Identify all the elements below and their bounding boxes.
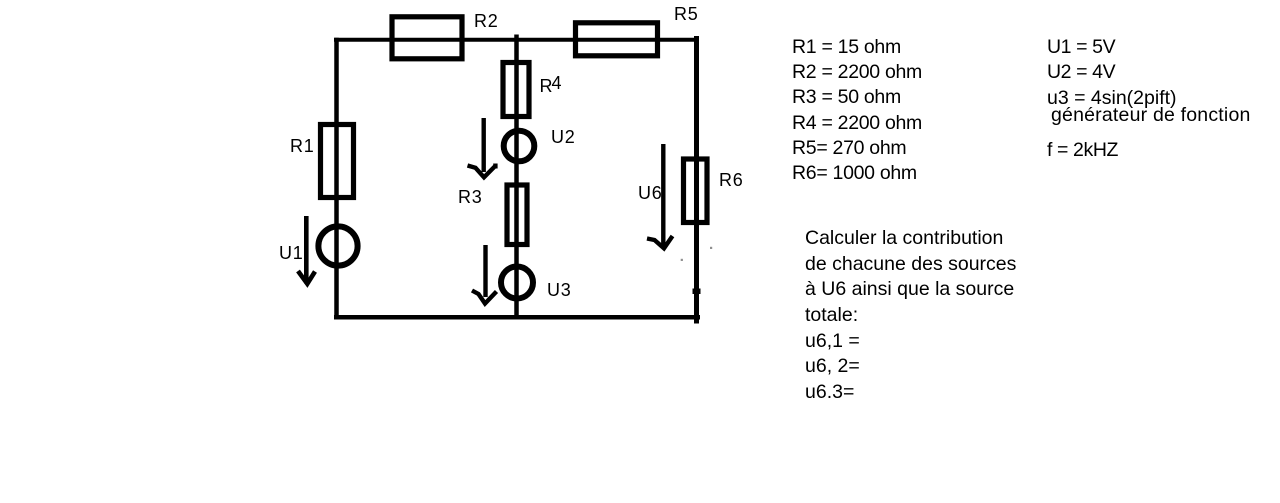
resistor R5	[576, 23, 658, 56]
wire left vertical	[334, 38, 339, 317]
value f	[1047, 141, 1118, 161]
resistor R1	[321, 125, 354, 198]
source U2	[504, 131, 535, 162]
speck near R6	[710, 247, 712, 249]
arrow U1	[298, 216, 315, 284]
label U6	[638, 184, 663, 202]
source U1	[318, 226, 357, 265]
source U3	[501, 267, 533, 299]
question block	[805, 226, 1016, 406]
wire bottom horizontal	[334, 315, 700, 320]
label R6	[719, 171, 744, 189]
label R2	[474, 12, 499, 30]
label R4	[540, 77, 562, 95]
resistor R2	[392, 17, 462, 59]
wire top horizontal	[334, 38, 699, 42]
label R3	[458, 188, 483, 206]
values sources	[1047, 35, 1115, 84]
resistor R3	[507, 185, 527, 245]
label U3	[547, 281, 572, 299]
wire right vertical	[694, 36, 699, 324]
values resistors	[792, 35, 922, 186]
wire middle vertical	[514, 35, 519, 319]
arrow U2	[468, 118, 496, 177]
arrow U6	[647, 144, 673, 248]
label R5	[674, 5, 699, 23]
arrow U3	[472, 245, 497, 304]
note generateur	[1051, 106, 1251, 126]
label U1	[279, 244, 304, 262]
resistor R6	[684, 159, 708, 223]
resistor R4	[503, 63, 529, 117]
label R1	[290, 137, 315, 155]
value u3	[1047, 89, 1177, 109]
node square on right wire	[693, 289, 701, 295]
label U2	[551, 128, 576, 146]
speck below R6	[681, 259, 683, 261]
